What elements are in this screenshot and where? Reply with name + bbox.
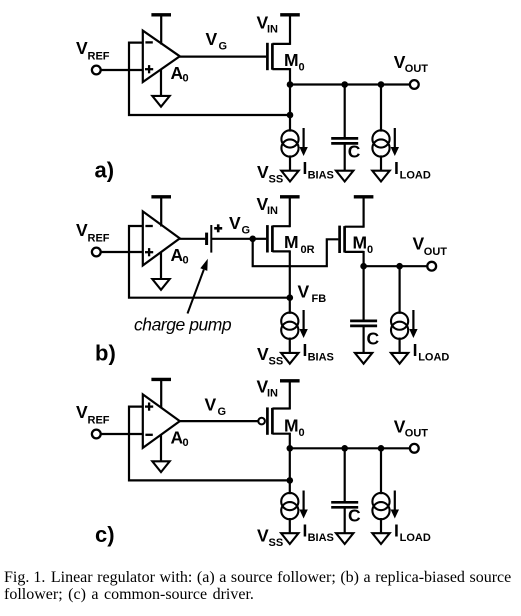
label A0 (c): [171, 428, 189, 450]
node ILOAD tap (b): [396, 263, 403, 270]
ground op-amp (a): [152, 69, 169, 106]
node VFB (b): [287, 294, 294, 301]
wire feedback to + input (c): [129, 407, 289, 481]
node ILOAD tap (c): [378, 445, 385, 452]
node M0 source (b): [360, 263, 367, 270]
node M0 source (a): [287, 81, 294, 88]
arrow IBIAS (a): [299, 128, 307, 156]
svg-text:0: 0: [183, 437, 189, 449]
label VSS (b): [257, 344, 283, 368]
terminal VOUT (c): [410, 444, 419, 453]
supply bar op-amp (b): [151, 197, 171, 227]
supply bar VIN (a): [280, 13, 300, 16]
wire output rail (c): [290, 447, 410, 449]
svg-text:SS: SS: [269, 356, 284, 368]
label VIN (c): [257, 377, 279, 400]
capacitor C (a): [331, 85, 358, 171]
label ILOAD (c): [394, 521, 431, 545]
svg-text:V: V: [298, 282, 310, 302]
svg-text:V: V: [76, 38, 88, 58]
svg-text:LOAD: LOAD: [400, 169, 431, 181]
svg-text:OUT: OUT: [405, 428, 429, 440]
svg-text:LOAD: LOAD: [400, 532, 431, 544]
label charge pump (b): [134, 315, 232, 335]
label VIN (a): [257, 13, 279, 36]
wire VG to M0R gate (b): [253, 238, 267, 240]
wire output rail (a): [290, 83, 410, 85]
capacitor C (c): [331, 448, 358, 533]
label C (c): [348, 506, 361, 526]
svg-text:FB: FB: [312, 293, 327, 305]
svg-text:c): c): [95, 522, 115, 547]
label A0 (a): [171, 63, 189, 85]
svg-text:C: C: [348, 141, 361, 161]
svg-text:IN: IN: [267, 24, 278, 36]
node feedback tap (c): [287, 477, 294, 484]
ground op-amp (c): [152, 434, 169, 472]
terminal VREF (c): [92, 430, 101, 439]
label IBIAS (b): [303, 340, 334, 364]
current source ILOAD (b): [391, 266, 408, 353]
label VG (a): [206, 29, 228, 53]
node capacitor tap (c): [341, 445, 348, 452]
label IBIAS (c): [303, 521, 334, 545]
wire VREF to op-amp + input (a): [101, 69, 143, 71]
label C (a): [348, 141, 361, 161]
supply bar VIN M0 (b): [354, 195, 374, 198]
transistor M0 PMOS (c): [258, 382, 289, 448]
svg-text:REF: REF: [88, 233, 110, 245]
op-amp A0 (c): [143, 394, 180, 448]
arrow ILOAD (c): [391, 491, 399, 519]
label VREF (b): [76, 220, 110, 245]
svg-text:M: M: [284, 50, 299, 70]
svg-text:V: V: [257, 162, 269, 182]
svg-text:a): a): [95, 158, 115, 183]
svg-text:M: M: [284, 416, 299, 436]
label M0 (b): [353, 233, 374, 257]
supply bar op-amp (c): [151, 379, 171, 407]
label VSS (c): [257, 526, 283, 550]
wire VREF to op-amp - input (c): [101, 433, 143, 435]
ground capacitor (c): [336, 533, 353, 544]
svg-text:V: V: [76, 220, 88, 240]
supply bar VIN (c): [280, 379, 300, 382]
label IBIAS (a): [303, 158, 334, 182]
svg-text:0: 0: [367, 244, 373, 256]
terminal VREF (b): [92, 248, 101, 257]
wire battery to node VG (b): [211, 238, 252, 240]
node feedback tap (a): [287, 112, 294, 119]
svg-text:OUT: OUT: [424, 246, 448, 258]
ground ILOAD (c): [372, 533, 389, 544]
label ILOAD (a): [394, 158, 431, 182]
label VREF (a): [76, 38, 110, 63]
svg-text:I: I: [413, 340, 418, 360]
ground ILOAD (a): [372, 171, 389, 182]
svg-text:V: V: [229, 213, 241, 233]
svg-text:LOAD: LOAD: [418, 351, 449, 363]
arrow to battery (b): [188, 259, 208, 314]
terminal VREF (a): [92, 66, 101, 75]
svg-text:V: V: [76, 402, 88, 422]
arrow IBIAS (c): [299, 491, 307, 519]
terminal VOUT (b): [427, 262, 436, 271]
svg-text:I: I: [394, 158, 399, 178]
label VOUT (c): [394, 417, 429, 440]
ground capacitor (b): [355, 353, 372, 364]
wire VG routing to M0 gate (b): [253, 239, 339, 266]
arrow ILOAD (b): [409, 310, 417, 338]
ground IBIAS (c): [281, 533, 298, 544]
wire feedback VFB to - input (b): [129, 226, 289, 298]
wire output rail (b): [364, 265, 428, 267]
label c): [95, 522, 115, 547]
current source IBIAS (c): [281, 480, 298, 533]
battery charge pump (b): [207, 225, 212, 253]
current source ILOAD (c): [372, 448, 389, 533]
wire VREF to op-amp + input (b): [101, 251, 143, 253]
svg-text:C: C: [348, 506, 361, 526]
terminal VOUT (a): [410, 80, 419, 89]
current source ILOAD (a): [372, 85, 389, 171]
svg-text:V: V: [413, 234, 425, 254]
svg-text:0: 0: [183, 73, 189, 85]
svg-text:V: V: [257, 526, 269, 546]
op-amp A0 (a): [143, 31, 180, 82]
label VG (c): [205, 395, 227, 419]
supply bar op-amp (a): [151, 15, 171, 45]
label A0 (b): [171, 245, 189, 267]
supply bar VIN M0R (b): [280, 195, 300, 198]
figure caption: [4, 569, 520, 603]
op-amp A0 (b): [143, 211, 180, 265]
wire feedback to - input (a): [129, 43, 289, 115]
label b): [95, 341, 116, 366]
label M0 (c): [284, 416, 305, 440]
ground capacitor (a): [336, 171, 353, 182]
label VOUT (b): [413, 234, 448, 259]
label VSS (a): [257, 162, 283, 186]
svg-text:V: V: [206, 29, 218, 49]
svg-text:OUT: OUT: [405, 63, 429, 75]
label ILOAD (b): [413, 340, 450, 364]
label M0 (a): [284, 50, 305, 74]
ground IBIAS (a): [281, 171, 298, 182]
svg-text:C: C: [367, 329, 380, 349]
arrow IBIAS (b): [299, 310, 307, 338]
svg-text:M: M: [284, 232, 299, 252]
svg-text:charge pump: charge pump: [134, 315, 232, 335]
svg-text:G: G: [218, 406, 227, 418]
ground ILOAD (b): [391, 353, 408, 364]
svg-text:V: V: [257, 344, 269, 364]
node VG (b): [249, 236, 256, 243]
wire op-amp output node VG (c): [180, 420, 258, 422]
arrow ILOAD (a): [391, 128, 399, 156]
label VFB (b): [298, 282, 327, 306]
svg-text:BIAS: BIAS: [308, 351, 334, 363]
label battery + (b): [214, 224, 222, 232]
current source IBIAS (b): [281, 298, 298, 353]
node ILOAD tap (a): [378, 81, 385, 88]
svg-text:REF: REF: [88, 415, 110, 427]
svg-text:BIAS: BIAS: [308, 169, 334, 181]
wire op-amp output to battery (b): [180, 238, 206, 240]
label C (b): [367, 329, 380, 349]
capacitor C (b): [350, 266, 377, 353]
svg-text:SS: SS: [269, 537, 284, 549]
svg-text:REF: REF: [88, 51, 110, 63]
svg-text:G: G: [219, 41, 228, 53]
svg-text:0R: 0R: [301, 244, 315, 256]
svg-text:M: M: [353, 233, 368, 253]
svg-text:IN: IN: [267, 388, 278, 400]
label VIN (b): [257, 194, 279, 217]
svg-text:I: I: [394, 521, 399, 541]
svg-text:0: 0: [183, 255, 189, 267]
node M0 drain (c): [287, 445, 294, 452]
label VOUT (a): [394, 52, 429, 75]
wire source node to feedback node (a): [289, 85, 291, 116]
svg-text:IN: IN: [267, 205, 278, 217]
svg-text:BIAS: BIAS: [308, 532, 334, 544]
label VG (b): [229, 213, 250, 237]
svg-text:G: G: [242, 225, 251, 237]
svg-text:SS: SS: [269, 174, 284, 186]
svg-text:0: 0: [299, 427, 305, 439]
label M0R (b): [284, 232, 315, 256]
ground op-amp (b): [152, 252, 169, 290]
transistor M0R (b): [267, 198, 289, 298]
label a): [95, 158, 115, 183]
svg-text:b): b): [95, 341, 116, 366]
ground IBIAS (b): [281, 353, 298, 364]
transistor M0 (a): [267, 16, 290, 85]
svg-text:0: 0: [299, 62, 305, 74]
transistor M0 (b): [340, 198, 364, 266]
label VREF (c): [76, 402, 110, 427]
node capacitor tap (a): [341, 81, 348, 88]
svg-text:V: V: [205, 395, 217, 415]
current source IBIAS (a): [281, 115, 298, 171]
wire drain node to feedback node (c): [289, 448, 291, 480]
wire op-amp output node VG (a): [180, 55, 267, 57]
